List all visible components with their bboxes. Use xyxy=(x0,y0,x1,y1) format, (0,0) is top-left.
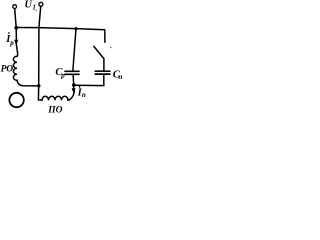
current arrow Ip head xyxy=(14,40,18,46)
winding RO (run winding) coil xyxy=(13,56,17,80)
motor rotor circle xyxy=(9,93,23,107)
svg-text:ПО: ПО xyxy=(47,105,62,115)
junction dot RO bottom xyxy=(37,84,40,87)
switch blade (open) xyxy=(94,46,104,58)
capacitor Cn top plate xyxy=(95,70,110,72)
svg-text:п: п xyxy=(82,91,86,99)
wire right terminal vertical xyxy=(38,7,42,101)
svg-text:п: п xyxy=(118,73,122,81)
svg-text:р: р xyxy=(9,39,14,47)
junction dot left bus xyxy=(14,26,18,30)
label Ipn (dot over I) xyxy=(79,86,81,88)
wire Cp branch from bus xyxy=(73,29,76,71)
wire left terminal to bus (Ip line) xyxy=(15,9,17,41)
current arrow Ipn head xyxy=(72,88,76,93)
capacitor Cp top plate xyxy=(65,70,79,72)
wire Ipn down from junction xyxy=(73,85,75,90)
wire Cn upper xyxy=(103,58,105,70)
label Ip (dot over I) xyxy=(8,32,10,34)
junction dot bottom (Cp/Cn/PO) xyxy=(72,83,76,87)
wire RO bottom to junction xyxy=(17,80,39,86)
ink speck near switch xyxy=(110,47,111,48)
svg-text:1: 1 xyxy=(32,4,36,12)
ink speck near U1 xyxy=(36,10,37,11)
terminal right xyxy=(39,2,43,6)
capacitor Cp bottom plate xyxy=(65,73,79,75)
wire PO right end rising to junction xyxy=(68,91,74,100)
wire Ip line below arrow into coil top xyxy=(16,44,17,56)
winding PO (start winding) coil xyxy=(42,96,68,100)
terminal left xyxy=(13,5,17,9)
svg-text:р: р xyxy=(60,72,65,80)
wire switch fixed contact xyxy=(104,30,106,43)
svg-text:РО: РО xyxy=(1,65,14,75)
top bus wire xyxy=(16,28,105,30)
junction dot Cp top xyxy=(74,27,77,30)
capacitor Cn bottom plate xyxy=(95,73,110,75)
wire Cp bottom stub xyxy=(72,75,75,85)
wire Cn bottom to junction xyxy=(74,75,104,86)
